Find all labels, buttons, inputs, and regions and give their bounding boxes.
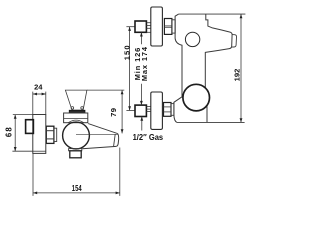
svg-text:Max 174: Max 174 [140, 46, 149, 81]
svg-text:150: 150 [122, 44, 131, 60]
svg-text:68: 68 [5, 126, 14, 137]
svg-text:79: 79 [109, 107, 118, 116]
svg-text:24: 24 [34, 83, 43, 92]
svg-text:154: 154 [72, 184, 82, 193]
svg-text:1/2″ Gas: 1/2″ Gas [133, 132, 164, 142]
svg-text:192: 192 [232, 69, 241, 82]
